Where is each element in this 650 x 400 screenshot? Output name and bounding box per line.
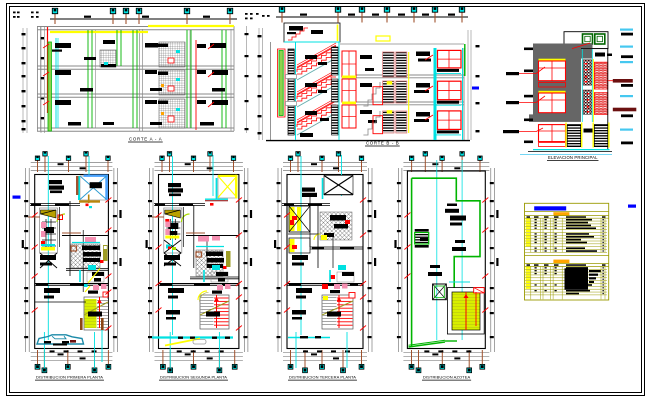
roof texts <box>450 216 466 221</box>
header dashes <box>527 216 531 218</box>
plan bottom dimension lines <box>31 352 113 354</box>
patio olive sill <box>79 200 100 202</box>
bath closet block <box>40 208 58 253</box>
facade gray wall <box>533 44 581 115</box>
svg-text:ELEVACION PRINCIPAL: ELEVACION PRINCIPAL <box>548 155 598 160</box>
door arc <box>314 234 320 240</box>
right room texts <box>416 52 430 57</box>
svg-text:DISTRIBUCION SEGUNDA PLANTA: DISTRIBUCION SEGUNDA PLANTA <box>160 375 227 380</box>
green partition lines <box>87 30 89 128</box>
section CORTE B-B <box>258 7 480 146</box>
plan outer walls <box>35 175 109 349</box>
building right edge <box>607 49 609 150</box>
yellow vent box <box>376 36 390 41</box>
orange header 1 <box>553 212 569 215</box>
kitchen bottom wall <box>190 276 239 278</box>
door arc yellow-green <box>57 214 65 222</box>
terrace sill <box>205 198 228 200</box>
interior wall A <box>282 203 330 205</box>
stair tower green bar <box>278 49 286 117</box>
cyan joints <box>581 49 583 122</box>
svg-text:DISTRIBUCION PRIMERA PLANTA: DISTRIBUCION PRIMERA PLANTA <box>36 375 103 380</box>
kitchen crosshatch <box>320 212 352 240</box>
wall B <box>310 246 363 248</box>
garage opener blob <box>584 129 593 133</box>
plan side dimension lines <box>397 168 399 352</box>
left dimension lines <box>258 28 260 140</box>
top-left dim end ticks <box>13 12 16 14</box>
stair block red treads <box>322 295 353 329</box>
mid walls <box>193 205 195 268</box>
stair hall bits <box>334 284 340 289</box>
roof parapet yellow line <box>50 31 148 33</box>
grid marker <box>459 7 464 23</box>
orange header 2 <box>553 260 569 263</box>
stair hall bits <box>217 285 223 290</box>
wall kitchen bottom <box>66 268 108 270</box>
grid marker <box>384 7 389 23</box>
plan bottom dimension lines <box>403 352 489 354</box>
plan bottom dimension lines <box>155 352 243 354</box>
grid marker <box>227 8 232 24</box>
louver columns left <box>332 47 339 75</box>
right elevation dims <box>620 29 633 31</box>
plan top dimension lines <box>403 161 489 163</box>
plan outer walls <box>287 175 363 349</box>
plan bottom dimension lines <box>283 352 367 354</box>
grid marker <box>184 8 189 24</box>
grid marker <box>335 7 340 23</box>
stair slab stubs <box>286 75 297 79</box>
wall C heavy <box>287 283 363 285</box>
interior wall A <box>30 203 80 205</box>
garage door 1 <box>567 125 581 147</box>
plan side dimension lines <box>277 168 279 352</box>
garage door 2 <box>594 125 608 147</box>
grid marker <box>110 8 115 24</box>
grid marker <box>123 8 128 24</box>
gray mid stairs floors 2-3 <box>363 82 380 106</box>
skylight green box <box>415 233 429 245</box>
plan top dimension lines <box>31 161 113 163</box>
red window stack mid <box>342 51 356 77</box>
mid dim end ticks <box>245 13 248 15</box>
main outline <box>270 42 272 140</box>
green roof vent 1 <box>583 34 593 44</box>
grid marker <box>279 7 284 23</box>
bath <box>211 272 228 282</box>
red level ticks <box>43 44 49 48</box>
table 2 rows <box>525 268 607 270</box>
plan2 red ticks <box>156 213 162 218</box>
grid marker <box>432 7 437 23</box>
vertical text marks <box>374 210 376 218</box>
hatch header blobs <box>158 44 168 48</box>
cyan wall lines <box>55 38 57 128</box>
louver column pairs <box>383 52 395 77</box>
vertical text marks <box>119 210 121 218</box>
bath <box>337 272 354 282</box>
top grid line <box>276 16 468 18</box>
mid band <box>525 254 609 256</box>
right side dimension line <box>246 26 248 133</box>
top-right room black X <box>324 176 353 195</box>
floor plan DISTRIBUCION PRIMERA PLANTA <box>22 152 122 381</box>
mosaic dark columns <box>583 60 592 85</box>
kitchen crosshatch <box>71 244 100 268</box>
green top right edge <box>464 44 466 76</box>
wall C heavy <box>159 283 239 285</box>
plan1 red ticks <box>32 213 38 218</box>
roof edge green path <box>412 178 480 287</box>
black lintel blob <box>595 53 605 57</box>
vertical text marks <box>496 210 498 218</box>
left elevation dims <box>524 48 533 51</box>
plan4 red ticks <box>404 213 410 218</box>
section text annotations <box>55 43 71 48</box>
blue level mark <box>472 87 479 90</box>
terrace room yellow X <box>218 176 237 198</box>
garage wall <box>35 301 86 303</box>
floor plan DISTRIBUCION SEGUNDA PLANTA <box>146 152 253 381</box>
stair hall colored bits <box>93 285 99 290</box>
mid rooms texts <box>360 55 372 59</box>
ground cyan line <box>533 149 610 151</box>
stair block <box>84 297 108 330</box>
stair texts <box>305 55 317 59</box>
elevation ELEVACION PRINCIPAL <box>503 29 636 161</box>
dim labels on line <box>84 16 91 18</box>
floor plan DISTRIBUCION TERCERA PLANTA <box>274 152 376 381</box>
lower yellow closet <box>289 238 310 253</box>
red roof pointer <box>572 43 590 49</box>
plan side dimension lines <box>25 168 27 352</box>
wall C heavy <box>35 283 109 285</box>
car side view <box>37 335 84 344</box>
mid vertical walls <box>69 201 71 276</box>
front room texts <box>168 183 181 187</box>
right dimension lines <box>467 30 469 140</box>
window level 2 <box>539 91 566 93</box>
bedroom texts <box>292 255 308 260</box>
plan3 red ticks <box>284 213 290 218</box>
cyan flight edges <box>297 58 336 80</box>
red brick columns <box>594 62 608 89</box>
patio room with blue X <box>80 176 107 200</box>
cyan stair walls <box>295 42 297 140</box>
right room red pointers <box>208 44 214 49</box>
right margin blue mark <box>628 205 636 208</box>
building outline walls <box>37 26 39 131</box>
return flights <box>297 50 336 72</box>
cyan axis lines <box>300 156 302 335</box>
green wall bar <box>48 42 51 131</box>
roof parapet box <box>564 32 608 49</box>
vertical text marks <box>250 210 252 218</box>
blue title bar <box>534 206 566 210</box>
red stair flights <box>297 58 336 80</box>
bath fixtures <box>87 272 104 282</box>
red bits <box>290 220 294 225</box>
plan top dimension lines <box>155 161 243 163</box>
right red windows <box>438 50 462 68</box>
front room texts <box>302 188 315 192</box>
svg-text:DISTRIBUCION AZOTEA: DISTRIBUCION AZOTEA <box>423 375 470 380</box>
svg-text:CORTE B - B: CORTE B - B <box>366 141 399 146</box>
kitchen <box>196 250 223 276</box>
roof box top-left <box>284 23 340 42</box>
grid marker <box>411 7 416 23</box>
right rooms cyan walls <box>434 48 437 140</box>
svg-text:CORTE A - A: CORTE A - A <box>129 137 162 142</box>
table 1 rows <box>525 220 607 222</box>
striped stair rail <box>288 49 294 135</box>
red column line <box>47 27 49 113</box>
bedroom texts <box>40 255 56 260</box>
green roof vent 2 <box>595 34 605 44</box>
big black block <box>565 268 589 290</box>
floor slabs <box>342 74 464 76</box>
top grid line <box>50 18 237 20</box>
cyan axis lines <box>172 156 174 335</box>
plan outer walls <box>159 175 239 349</box>
kitchen top wall <box>186 235 239 237</box>
window level 3 <box>539 59 566 61</box>
front room texts <box>49 180 62 184</box>
stair block <box>447 288 484 334</box>
window accents <box>168 58 174 63</box>
grid marker <box>136 8 141 24</box>
door arc yellow-green <box>182 214 190 222</box>
kitchen top wall <box>62 235 108 237</box>
left margin blue mark <box>13 196 21 199</box>
cyan axis lines <box>47 156 49 340</box>
red partition line <box>195 40 197 130</box>
left dimension lines <box>22 28 24 133</box>
floor slabs <box>37 26 234 28</box>
plan top dimension lines <box>283 161 367 163</box>
bath closet block <box>164 208 182 253</box>
cyan bottom line <box>288 337 330 339</box>
hatched window grids <box>100 50 116 67</box>
table separators <box>530 218 532 252</box>
plan side dimension lines <box>149 168 151 352</box>
bottom room <box>166 310 180 315</box>
grid marker <box>359 7 364 23</box>
elevator shaft <box>433 284 447 300</box>
bedroom texts <box>164 255 180 260</box>
plan outer walls <box>407 171 485 349</box>
window level 1 <box>539 125 566 142</box>
floor plan DISTRIBUCION AZOTEA <box>394 152 498 381</box>
section CORTE A-A <box>22 8 249 142</box>
door arc lower yellow <box>198 291 207 300</box>
cyan axis lines <box>436 160 438 340</box>
stair block red treads <box>200 295 229 329</box>
legend tables <box>525 203 609 300</box>
yellow joint line <box>592 59 594 122</box>
interior wall A <box>154 203 205 205</box>
yellow closet block <box>289 206 310 232</box>
mid walls <box>317 205 319 268</box>
svg-text:DISTRIBUCION TERCERA PLANTA: DISTRIBUCION TERCERA PLANTA <box>289 375 356 380</box>
grid marker <box>52 8 57 24</box>
